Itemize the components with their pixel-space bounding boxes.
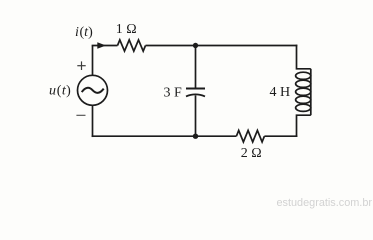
plus polarity: [77, 61, 85, 70]
current arrow i(t): [97, 42, 106, 49]
svg-text:1 Ω: 1 Ω: [116, 22, 137, 37]
node B junction dot (bottom): [193, 134, 198, 139]
wire: source bottom to bottom rail: [92, 105, 94, 137]
inductor L1: [296, 69, 311, 115]
svg-text:2 Ω: 2 Ω: [241, 146, 262, 161]
wire: top-left segment to resistor R1: [92, 45, 118, 47]
resistor R2: [236, 130, 264, 142]
svg-text:i: i: [75, 25, 79, 40]
svg-text:u: u: [49, 84, 56, 99]
resistor R1: [118, 40, 146, 51]
wire: capacitor C1 down to node B: [195, 95, 197, 136]
svg-text:(t): (t): [80, 25, 94, 40]
wire: right rail top (corner down to inductor): [297, 45, 311, 69]
wire: source top to top rail: [92, 46, 94, 76]
wire: right rail bottom (inductor to bottom corner): [297, 115, 311, 137]
wire: resistor R2 to bottom-right corner: [264, 135, 297, 137]
wire: node A down to capacitor C1: [195, 46, 197, 89]
node A junction dot (top): [193, 43, 198, 48]
svg-text:3 F: 3 F: [164, 85, 183, 100]
minus polarity: [76, 114, 85, 116]
wire: bottom-left segment to resistor R2: [92, 135, 237, 137]
svg-text:(t): (t): [57, 84, 71, 99]
voltage source U1: [78, 75, 108, 105]
svg-text:estudegratis.com.br: estudegratis.com.br: [277, 197, 373, 209]
svg-text:4 H: 4 H: [270, 85, 291, 100]
wire: resistor R1 to top-right corner: [146, 45, 298, 47]
capacitor C1: [186, 89, 205, 97]
